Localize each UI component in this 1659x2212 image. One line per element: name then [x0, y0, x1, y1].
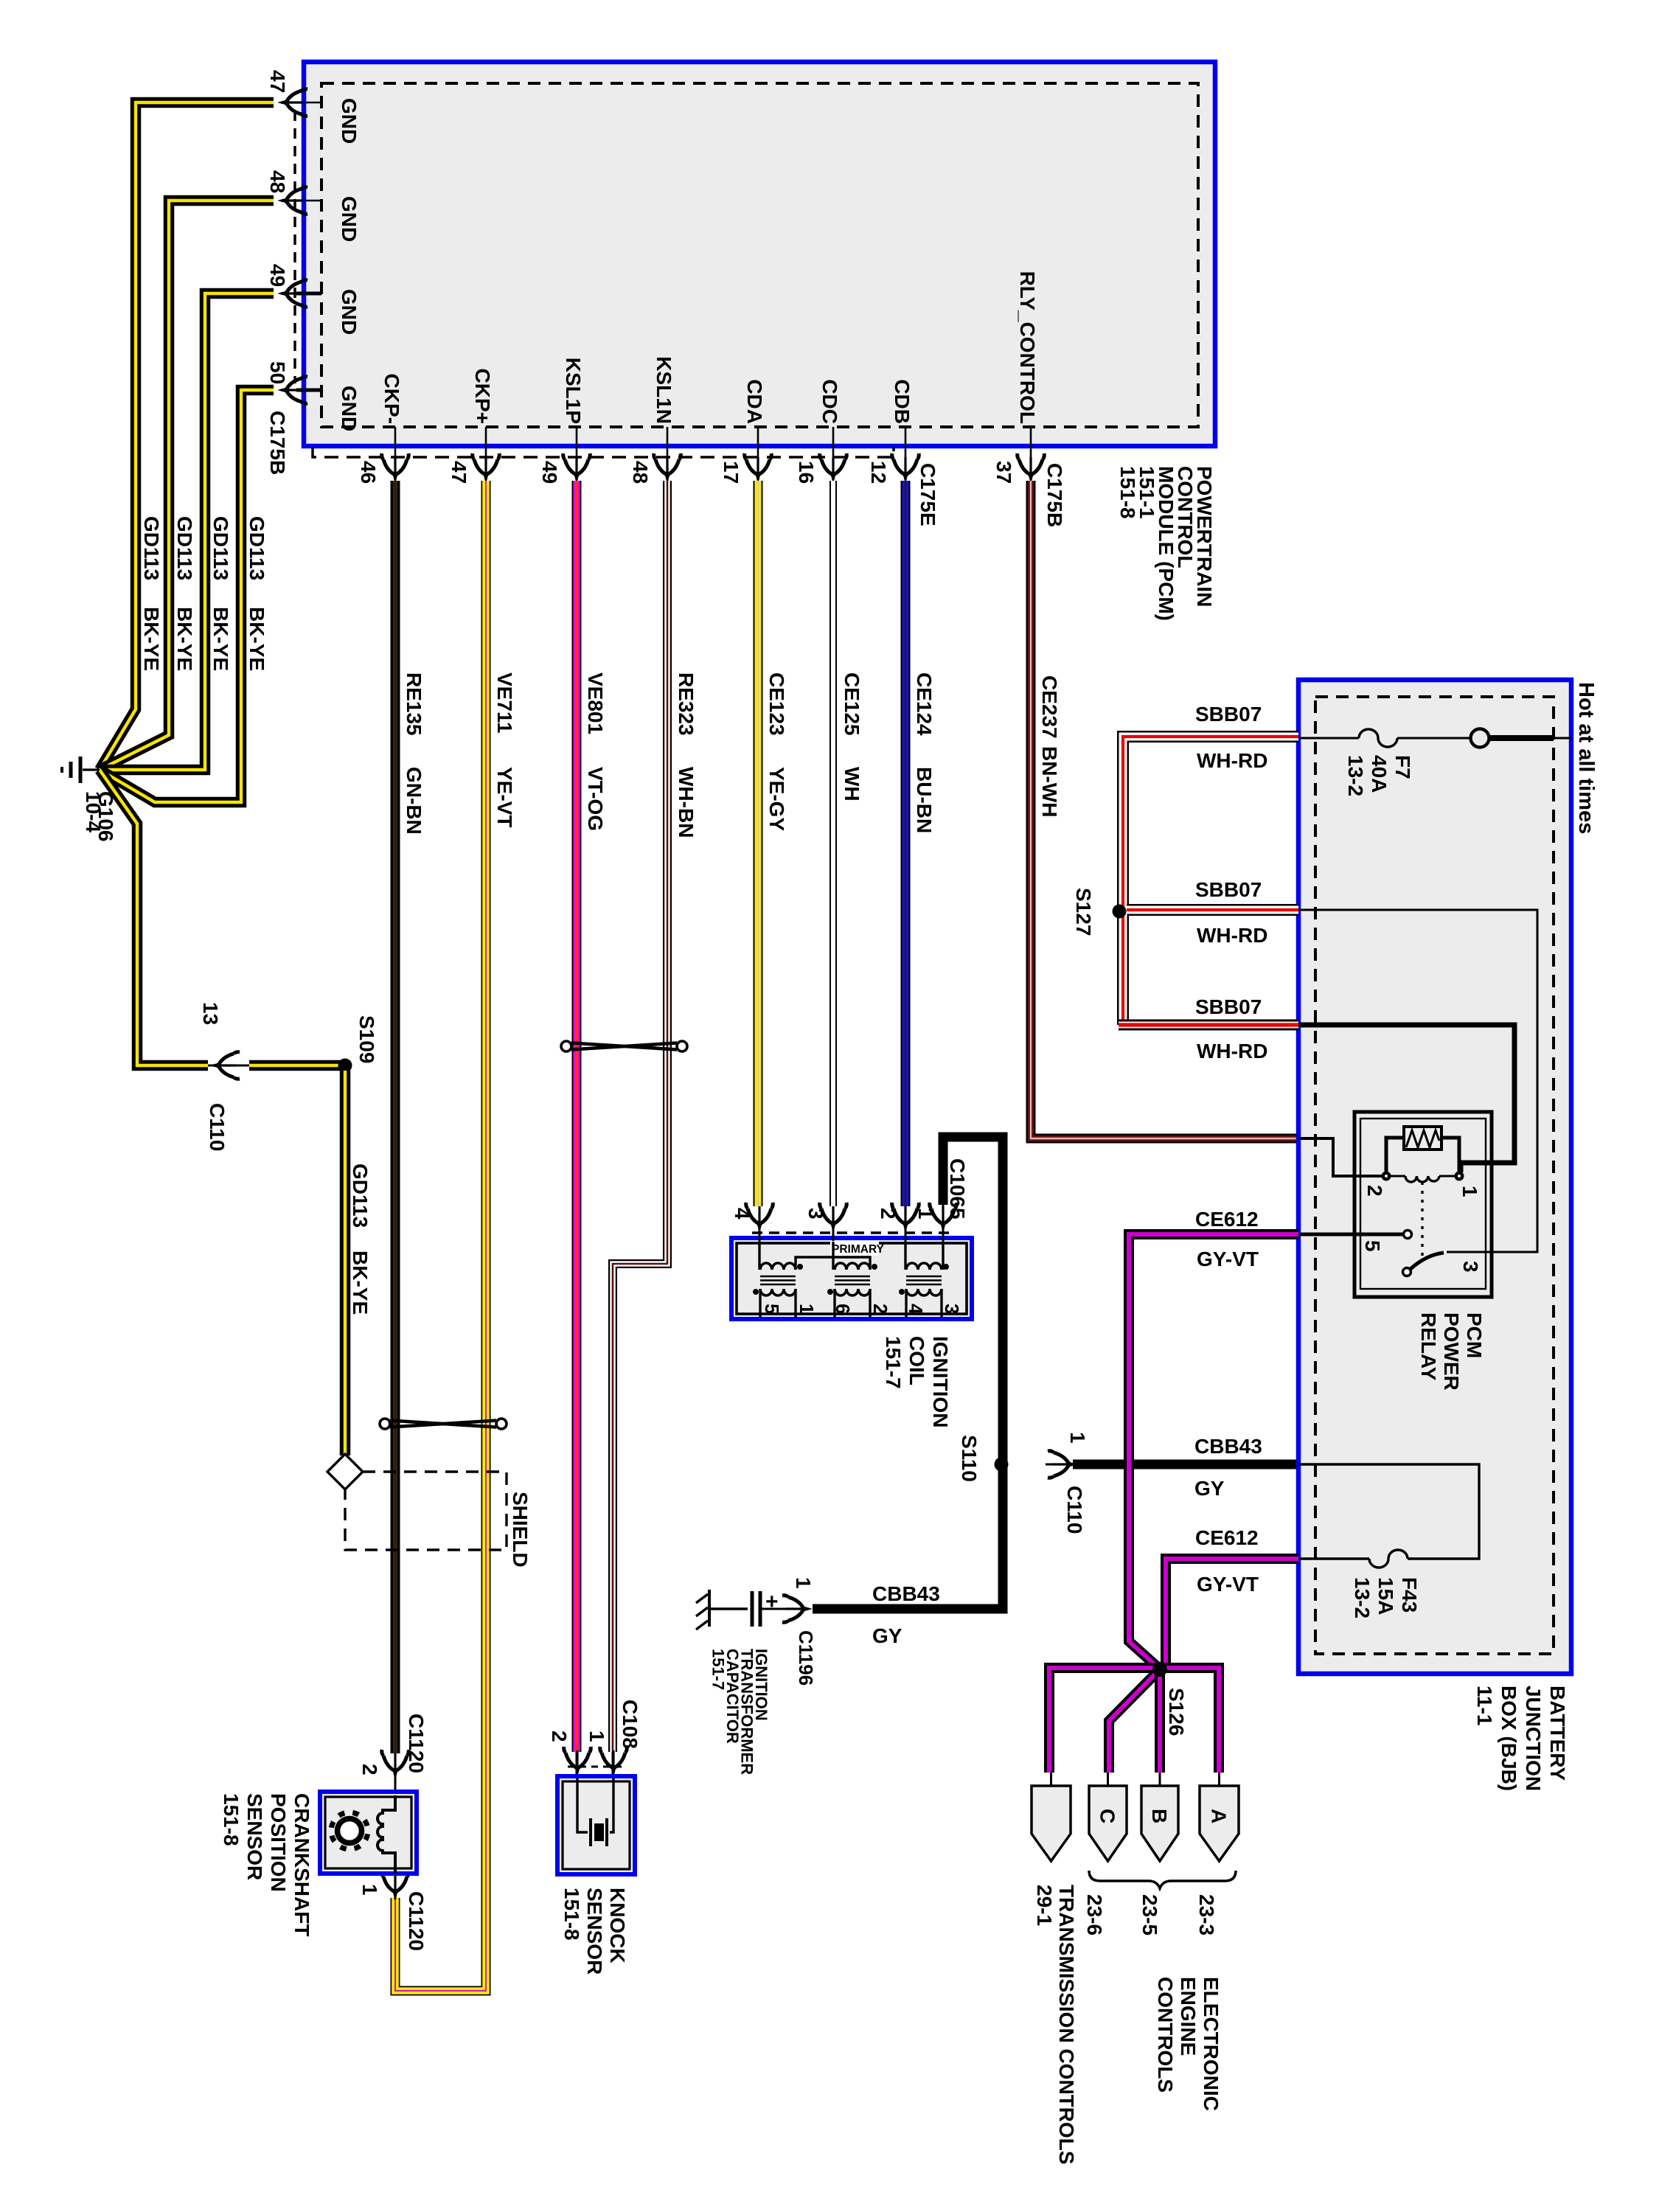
svg-text:S127: S127	[1072, 888, 1095, 936]
svg-text:KSL1N: KSL1N	[653, 356, 675, 424]
svg-text:WH-RD: WH-RD	[1197, 924, 1267, 947]
svg-text:JUNCTION: JUNCTION	[1522, 1686, 1545, 1791]
svg-text:1: 1	[914, 1208, 937, 1220]
svg-text:2: 2	[1363, 1185, 1386, 1197]
svg-text:TRANSMISSION CONTROLS: TRANSMISSION CONTROLS	[1055, 1885, 1078, 2165]
svg-text:BK-YE: BK-YE	[209, 607, 232, 671]
svg-text:CE237: CE237	[1038, 675, 1061, 739]
svg-text:GND: GND	[338, 196, 361, 242]
svg-text:CDB: CDB	[891, 379, 914, 424]
svg-text:C110: C110	[1063, 1486, 1086, 1534]
svg-text:2: 2	[548, 1731, 571, 1742]
svg-text:GND: GND	[338, 386, 361, 431]
svg-text:BK-YE: BK-YE	[173, 607, 196, 671]
svg-text:GY-VT: GY-VT	[1197, 1573, 1259, 1596]
svg-text:151-8: 151-8	[1116, 466, 1139, 519]
svg-text:CE123: CE123	[765, 672, 788, 736]
svg-text:5: 5	[761, 1304, 783, 1314]
svg-text:CRANKSHAFT: CRANKSHAFT	[291, 1793, 313, 1936]
svg-text:GN-BN: GN-BN	[403, 767, 425, 835]
svg-text:CDC: CDC	[818, 379, 841, 424]
svg-text:GD113: GD113	[349, 1164, 372, 1228]
svg-text:BU-BN: BU-BN	[913, 767, 936, 833]
svg-text:CE612: CE612	[1195, 1208, 1259, 1231]
svg-text:VE711: VE711	[493, 672, 516, 734]
svg-text:C175B: C175B	[266, 411, 289, 475]
svg-text:GY: GY	[1194, 1477, 1225, 1500]
svg-text:13: 13	[199, 1002, 222, 1025]
svg-text:40A: 40A	[1368, 755, 1391, 793]
svg-text:16: 16	[795, 461, 818, 484]
svg-text:48: 48	[629, 461, 652, 484]
svg-text:ENGINE: ENGINE	[1177, 1977, 1200, 2056]
svg-text:151-7: 151-7	[882, 1336, 905, 1389]
svg-text:F43: F43	[1398, 1577, 1421, 1613]
svg-text:CDA: CDA	[743, 379, 766, 424]
svg-text:CE612: CE612	[1195, 1526, 1259, 1549]
svg-text:37: 37	[992, 461, 1015, 484]
svg-text:RLY_CONTROL: RLY_CONTROL	[1016, 271, 1039, 424]
svg-text:49: 49	[266, 264, 289, 287]
svg-text:POWER: POWER	[1440, 1312, 1463, 1391]
svg-text:151-8: 151-8	[560, 1888, 583, 1941]
svg-text:VE801: VE801	[584, 672, 607, 734]
svg-text:PCM: PCM	[1463, 1312, 1486, 1358]
svg-text:BATTERY: BATTERY	[1546, 1686, 1569, 1781]
svg-text:CBB43: CBB43	[1194, 1435, 1262, 1458]
svg-text:10-4: 10-4	[82, 791, 105, 832]
svg-text:1: 1	[1458, 1186, 1481, 1197]
svg-text:2: 2	[877, 1208, 900, 1220]
svg-text:C1120: C1120	[405, 1714, 428, 1773]
svg-text:3: 3	[1459, 1261, 1482, 1273]
svg-text:RELAY: RELAY	[1417, 1312, 1440, 1381]
svg-text:6: 6	[832, 1304, 854, 1314]
svg-text:YE-VT: YE-VT	[493, 767, 516, 827]
svg-text:Hot at all times: Hot at all times	[1574, 682, 1598, 834]
svg-text:ELECTRONIC: ELECTRONIC	[1200, 1977, 1222, 2111]
svg-text:GND: GND	[338, 289, 361, 335]
svg-text:GY: GY	[872, 1624, 902, 1647]
svg-text:BOX (BJB): BOX (BJB)	[1498, 1686, 1520, 1791]
svg-text:23-6: 23-6	[1083, 1894, 1106, 1935]
svg-text:CKP-: CKP-	[380, 374, 403, 424]
svg-text:S126: S126	[1165, 1688, 1188, 1736]
svg-text:POSITION: POSITION	[267, 1793, 290, 1892]
svg-text:VT-OG: VT-OG	[584, 767, 607, 831]
svg-text:BK-YE: BK-YE	[246, 607, 268, 671]
svg-text:RE323: RE323	[675, 672, 698, 736]
svg-text:15A: 15A	[1374, 1577, 1397, 1615]
svg-text:47: 47	[448, 461, 470, 484]
svg-text:BK-YE: BK-YE	[349, 1251, 372, 1315]
svg-text:CE125: CE125	[841, 672, 863, 736]
svg-text:KSL1P: KSL1P	[562, 358, 585, 424]
svg-text:SBB07: SBB07	[1195, 995, 1262, 1018]
svg-text:C1120: C1120	[405, 1891, 428, 1951]
svg-text:C175E: C175E	[917, 463, 939, 526]
svg-text:GD113: GD113	[246, 516, 268, 580]
svg-text:23-5: 23-5	[1138, 1894, 1161, 1935]
svg-text:48: 48	[266, 170, 289, 193]
svg-text:GD113: GD113	[209, 516, 232, 580]
svg-text:23-3: 23-3	[1195, 1894, 1218, 1935]
svg-text:GY-VT: GY-VT	[1197, 1248, 1259, 1270]
svg-text:13-2: 13-2	[1344, 755, 1367, 796]
svg-text:3: 3	[804, 1208, 827, 1220]
svg-text:SBB07: SBB07	[1195, 878, 1262, 901]
svg-text:1: 1	[358, 1884, 381, 1896]
svg-text:SHIELD: SHIELD	[509, 1492, 532, 1568]
svg-text:C1065: C1065	[946, 1158, 969, 1220]
svg-text:RE135: RE135	[403, 672, 425, 736]
svg-text:C110: C110	[206, 1103, 229, 1151]
svg-text:2: 2	[358, 1764, 381, 1775]
svg-text:1: 1	[585, 1731, 608, 1742]
svg-text:1: 1	[792, 1577, 815, 1589]
svg-text:GD113: GD113	[140, 516, 163, 580]
svg-text:COIL: COIL	[905, 1336, 928, 1385]
svg-text:+: +	[765, 1590, 779, 1614]
svg-text:KNOCK: KNOCK	[606, 1888, 629, 1964]
svg-text:151-8: 151-8	[220, 1793, 243, 1846]
svg-text:49: 49	[538, 461, 561, 484]
svg-text:17: 17	[720, 461, 742, 484]
svg-text:C1196: C1196	[795, 1630, 817, 1686]
svg-text:CONTROLS: CONTROLS	[1154, 1977, 1177, 2093]
svg-text:11-1: 11-1	[1473, 1686, 1496, 1726]
svg-text:2: 2	[869, 1304, 891, 1314]
svg-text:13-2: 13-2	[1351, 1577, 1374, 1618]
svg-text:B: B	[1148, 1809, 1171, 1823]
svg-text:IGNITION: IGNITION	[929, 1336, 952, 1427]
svg-text:SENSOR: SENSOR	[243, 1793, 266, 1880]
svg-text:C108: C108	[619, 1700, 641, 1749]
svg-text:WH-RD: WH-RD	[1197, 749, 1267, 772]
svg-text:GND: GND	[338, 98, 361, 144]
svg-text:5: 5	[1361, 1240, 1384, 1252]
svg-text:4: 4	[905, 1304, 927, 1315]
svg-text:GD113: GD113	[173, 516, 196, 580]
svg-text:BN-WH: BN-WH	[1038, 746, 1061, 817]
svg-text:PRIMARY: PRIMARY	[832, 1243, 885, 1256]
svg-text:46: 46	[357, 461, 380, 484]
svg-text:1: 1	[796, 1304, 818, 1314]
svg-text:151-7: 151-7	[709, 1649, 728, 1690]
svg-text:4: 4	[731, 1208, 754, 1220]
svg-text:12: 12	[867, 461, 890, 484]
svg-text:A: A	[1208, 1809, 1231, 1823]
svg-text:50: 50	[266, 361, 289, 384]
svg-text:WH-BN: WH-BN	[675, 767, 698, 838]
svg-text:YE-GY: YE-GY	[765, 767, 788, 831]
svg-text:S110: S110	[958, 1435, 981, 1482]
svg-text:CKP+: CKP+	[471, 369, 494, 424]
svg-text:SENSOR: SENSOR	[583, 1888, 606, 1975]
svg-text:F7: F7	[1391, 755, 1414, 779]
svg-text:29-1: 29-1	[1033, 1885, 1056, 1926]
svg-text:C: C	[1096, 1809, 1119, 1823]
svg-text:47: 47	[266, 70, 289, 93]
svg-text:SBB07: SBB07	[1195, 703, 1262, 726]
svg-text:S109: S109	[355, 1015, 378, 1063]
svg-text:3: 3	[941, 1304, 963, 1314]
svg-text:CBB43: CBB43	[872, 1582, 940, 1605]
svg-text:CE124: CE124	[913, 672, 936, 736]
svg-text:C175B: C175B	[1043, 463, 1066, 527]
svg-text:WH: WH	[841, 767, 863, 801]
svg-text:WH-RD: WH-RD	[1197, 1040, 1267, 1062]
svg-text:BK-YE: BK-YE	[140, 607, 163, 671]
svg-text:1: 1	[1066, 1432, 1089, 1444]
